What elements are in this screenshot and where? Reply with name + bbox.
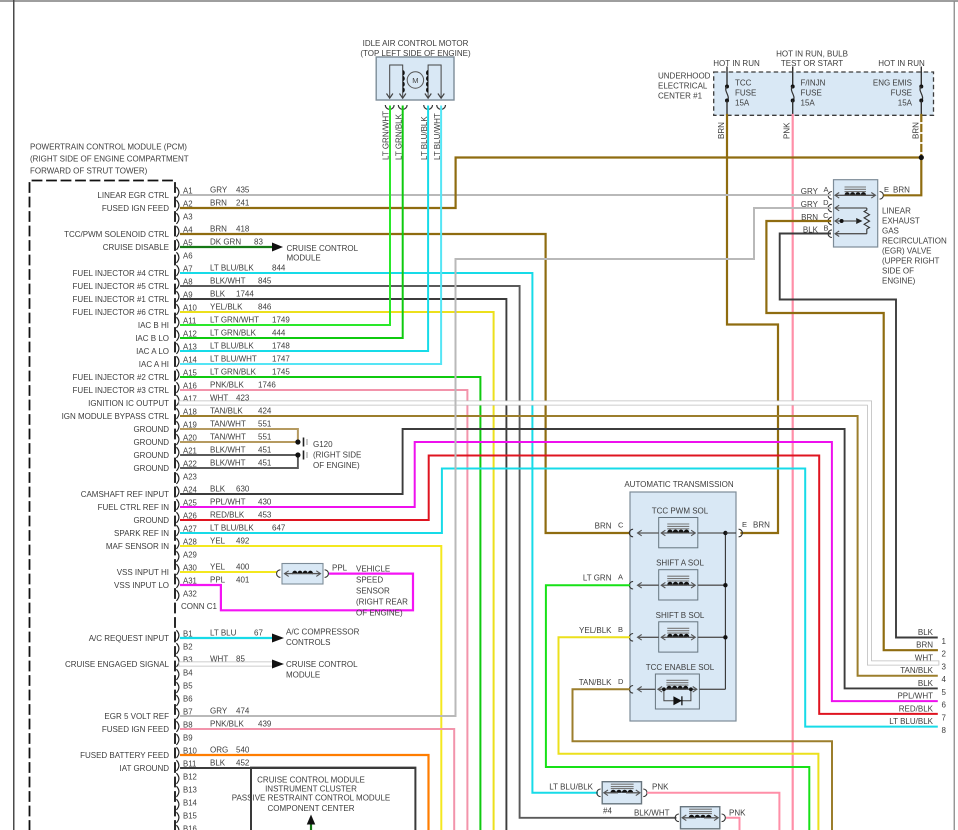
svg-text:PPL: PPL (332, 564, 348, 573)
PCM pin B6 (176, 695, 179, 706)
svg-text:FUSE: FUSE (801, 89, 822, 98)
svg-text:A/C REQUEST INPUT: A/C REQUEST INPUT (89, 634, 169, 643)
svg-text:IDLE AIR CONTROL MOTOR: IDLE AIR CONTROL MOTOR (363, 39, 469, 48)
PCM pin A1 (176, 187, 179, 198)
svg-text:SHIFT B SOL: SHIFT B SOL (656, 611, 705, 620)
svg-text:15A: 15A (801, 99, 816, 108)
svg-text:FUSED IGN FEED: FUSED IGN FEED (102, 204, 169, 213)
PCM pin B10 (176, 747, 179, 758)
svg-text:MAF SENSOR IN: MAF SENSOR IN (106, 542, 169, 551)
svg-text:SHIFT A SOL: SHIFT A SOL (656, 559, 704, 568)
svg-text:UNDERHOOD: UNDERHOOD (658, 72, 711, 81)
PCM dashed box border (30, 181, 176, 830)
vehicle speed sensor box (282, 564, 323, 585)
svg-text:G120: G120 (313, 440, 333, 449)
svg-text:BRN: BRN (893, 186, 910, 195)
wire A9 BLK 1744 off page bottom (181, 299, 506, 830)
PCM pin A2 (176, 200, 179, 211)
svg-text:OF ENGINE): OF ENGINE) (313, 461, 360, 470)
svg-text:IGN MODULE BYPASS CTRL: IGN MODULE BYPASS CTRL (62, 412, 170, 421)
wire A18 TAN/BLK 424 to right connector 4 (181, 416, 937, 676)
svg-text:CRUISE ENGAGED SIGNAL: CRUISE ENGAGED SIGNAL (65, 660, 170, 669)
svg-text:LT GRN/WHT: LT GRN/WHT (210, 316, 259, 325)
wire BRN from TCC fuse to transmission pin E (727, 115, 778, 533)
wire A10 YEL/BLK 846 off page bottom (181, 312, 494, 830)
svg-text:INSTRUMENT CLUSTER: INSTRUMENT CLUSTER (265, 785, 357, 794)
wire A28 YEL 492 off page bottom (181, 546, 441, 830)
PCM pin A6 (176, 252, 179, 263)
svg-text:492: 492 (236, 537, 250, 546)
transmission internal bus (724, 533, 726, 689)
svg-text:A/C COMPRESSOR: A/C COMPRESSOR (286, 628, 360, 637)
svg-text:A3: A3 (183, 213, 193, 222)
PCM pin B1 (176, 630, 179, 641)
svg-text:RECIRCULATION: RECIRCULATION (882, 237, 947, 246)
wire A25 PPL/WHT 430 to right connector 6 (181, 442, 937, 701)
svg-text:LT GRN/BLK: LT GRN/BLK (210, 329, 257, 338)
EGR wiper arrow and junction (840, 219, 844, 223)
svg-text:BLK/WHT: BLK/WHT (210, 277, 246, 286)
svg-text:LT BLU/BLK: LT BLU/BLK (549, 783, 593, 792)
wire B3 WHT 85 to cruise control module (181, 662, 272, 667)
svg-text:647: 647 (272, 524, 286, 533)
svg-text:WHT: WHT (915, 654, 933, 663)
svg-text:LT BLU/BLK: LT BLU/BLK (210, 524, 254, 533)
svg-text:PNK: PNK (652, 783, 669, 792)
svg-text:YEL: YEL (210, 563, 226, 572)
svg-text:BLK/WHT: BLK/WHT (210, 446, 246, 455)
svg-text:#4: #4 (603, 807, 612, 816)
PCM pin A4 (176, 226, 179, 237)
PCM pin B3 (176, 656, 179, 667)
wire A5 DK GRN 83 to cruise control module (181, 246, 272, 248)
svg-text:BLK/WHT: BLK/WHT (634, 809, 670, 818)
svg-text:B13: B13 (183, 786, 197, 795)
svg-text:CAMSHAFT REF INPUT: CAMSHAFT REF INPUT (81, 490, 169, 499)
PCM pin A5 (176, 239, 179, 250)
svg-text:C: C (618, 521, 624, 530)
component center box (251, 768, 415, 830)
PCM pin A20 (176, 434, 179, 445)
PCM pin A30 (176, 564, 179, 575)
PCM pin B5 (176, 682, 179, 693)
wire A1 GRY 435 to EGR pin A (181, 194, 830, 196)
svg-text:HOT IN RUN: HOT IN RUN (713, 59, 760, 68)
svg-text:(RIGHT SIDE OF ENGINE COMPARTM: (RIGHT SIDE OF ENGINE COMPARTMENT (30, 155, 189, 164)
svg-text:LT GRN/BLK: LT GRN/BLK (210, 368, 257, 377)
svg-text:SPARK REF IN: SPARK REF IN (114, 529, 169, 538)
svg-text:GRY: GRY (210, 707, 228, 716)
svg-text:ENG EMIS: ENG EMIS (873, 79, 912, 88)
svg-text:FUSE: FUSE (735, 89, 756, 98)
svg-text:IGNITION IC OUTPUT: IGNITION IC OUTPUT (88, 399, 169, 408)
svg-text:PNK/BLK: PNK/BLK (210, 720, 244, 729)
svg-text:5: 5 (942, 688, 947, 697)
wire A26 RED/BLK 453 to right connector 7 (181, 456, 937, 714)
PCM pin B13 (176, 786, 179, 797)
wire TAN/BLK to transmission pin D (573, 689, 833, 830)
wire A16 PNK/BLK 1746 off page bottom (181, 390, 467, 830)
svg-text:LT BLU/BLK: LT BLU/BLK (889, 717, 933, 726)
wire A31 PPL 401 loop to VSS (181, 574, 413, 611)
svg-text:B16: B16 (183, 825, 197, 830)
svg-text:POWERTRAIN CONTROL MODULE (PCM: POWERTRAIN CONTROL MODULE (PCM) (30, 143, 187, 152)
svg-text:453: 453 (258, 511, 272, 520)
idle air control motor box (376, 57, 454, 100)
EGR pin D connector (828, 204, 832, 212)
svg-text:IAC A LO: IAC A LO (136, 347, 169, 356)
wire A24 BLK 630 to right connector 5 (181, 429, 937, 688)
svg-text:(UPPER RIGHT: (UPPER RIGHT (882, 257, 939, 266)
svg-text:LT BLU/WHT: LT BLU/WHT (210, 355, 257, 364)
wire LT GRN to transmission pin A (546, 585, 809, 830)
svg-text:GAS: GAS (882, 227, 899, 236)
svg-text:LT GRN: LT GRN (583, 574, 612, 583)
wire PNK from F/INJN fuse down off page (792, 115, 794, 830)
PCM pin A16 (176, 382, 179, 393)
svg-text:TAN/BLK: TAN/BLK (579, 678, 612, 687)
page border frame (0, 0, 958, 2)
svg-text:PNK: PNK (783, 122, 792, 139)
svg-text:(RIGHT REAR: (RIGHT REAR (356, 598, 408, 607)
svg-text:CRUISE CONTROL: CRUISE CONTROL (287, 244, 359, 253)
fuse F/INJN (792, 67, 794, 87)
svg-text:FORWARD OF STRUT TOWER): FORWARD OF STRUT TOWER) (30, 167, 148, 176)
EGR pin E connector cup (880, 192, 884, 200)
svg-text:TAN/WHT: TAN/WHT (210, 433, 246, 442)
PCM pin B11 (176, 760, 179, 771)
PCM pin A7 (176, 265, 179, 276)
PCM pin A21 (176, 447, 179, 458)
svg-text:BLK/WHT: BLK/WHT (210, 459, 246, 468)
svg-text:B2: B2 (183, 643, 193, 652)
svg-text:3: 3 (942, 663, 947, 672)
wire A21 BLK/WHT 451 to G120 (181, 454, 298, 456)
svg-text:YEL: YEL (210, 537, 226, 546)
PCM pin B16 (176, 825, 179, 830)
PCM pin A8 (176, 278, 179, 289)
PCM pin A29 (176, 551, 179, 562)
svg-text:BLK: BLK (210, 290, 226, 299)
IAC connector cups (385, 105, 394, 109)
PCM pin A10 (176, 304, 179, 315)
svg-text:TCC PWM SOL: TCC PWM SOL (652, 507, 709, 516)
wire A12 LT GRN/BLK 444 to IAC (181, 107, 403, 339)
VSS connector cups (277, 570, 281, 578)
svg-text:SENSOR: SENSOR (356, 587, 390, 596)
wire BRN dashed from ENG EMIS fuse to junction (920, 115, 922, 156)
svg-text:E: E (884, 185, 889, 194)
svg-text:ENGINE): ENGINE) (882, 277, 916, 286)
svg-text:1745: 1745 (272, 368, 290, 377)
svg-text:CRUISE CONTROL: CRUISE CONTROL (286, 660, 358, 669)
svg-text:GROUND: GROUND (133, 464, 169, 473)
PCM pin A31 (176, 577, 179, 588)
svg-text:TAN/WHT: TAN/WHT (210, 420, 246, 429)
svg-text:BRN: BRN (753, 521, 770, 530)
svg-text:7: 7 (942, 713, 947, 722)
PCM pin B4 (176, 669, 179, 680)
svg-text:(RIGHT SIDE: (RIGHT SIDE (313, 451, 361, 460)
PCM pin B9 (176, 734, 179, 745)
svg-text:451: 451 (258, 446, 272, 455)
svg-text:B4: B4 (183, 669, 193, 678)
fuse TCC (726, 67, 728, 87)
svg-text:GROUND: GROUND (133, 425, 169, 434)
svg-text:SPEED: SPEED (356, 576, 383, 585)
svg-text:AUTOMATIC TRANSMISSION: AUTOMATIC TRANSMISSION (624, 480, 734, 489)
wire B11 BLK 452 off page bottom (181, 767, 415, 769)
wire A4 BRN 418 to transmission pin C (181, 234, 629, 533)
PCM pin B8 (176, 721, 179, 732)
svg-text:FUEL INJECTOR #2 CTRL: FUEL INJECTOR #2 CTRL (73, 373, 170, 382)
svg-text:CRUISE CONTROL MODULE: CRUISE CONTROL MODULE (257, 776, 365, 785)
svg-text:1744: 1744 (236, 290, 254, 299)
svg-text:MODULE: MODULE (287, 254, 321, 263)
svg-text:1746: 1746 (258, 381, 276, 390)
EGR pin B connector (828, 230, 832, 238)
svg-text:LINEAR EGR CTRL: LINEAR EGR CTRL (97, 191, 169, 200)
svg-text:TCC ENABLE SOL: TCC ENABLE SOL (646, 663, 715, 672)
svg-text:B9: B9 (183, 734, 193, 743)
svg-text:FUEL INJECTOR #4 CTRL: FUEL INJECTOR #4 CTRL (73, 269, 170, 278)
svg-text:1747: 1747 (272, 355, 290, 364)
PCM pin A27 (176, 525, 179, 536)
svg-text:SIDE OF: SIDE OF (882, 267, 914, 276)
svg-text:BRN: BRN (210, 225, 227, 234)
PCM pin A11 (176, 317, 179, 328)
PCM pin A17 (176, 395, 179, 406)
svg-text:452: 452 (236, 759, 250, 768)
svg-text:451: 451 (258, 459, 272, 468)
svg-text:LINEAR: LINEAR (882, 207, 911, 216)
underhood electrical center #1 fuse box (714, 72, 934, 115)
svg-text:B6: B6 (183, 695, 193, 704)
PCM pin A24 (176, 486, 179, 497)
svg-text:4: 4 (942, 675, 947, 684)
svg-text:PPL/WHT: PPL/WHT (210, 498, 246, 507)
automatic transmission box (630, 492, 736, 721)
svg-text:EGR 5 VOLT REF: EGR 5 VOLT REF (104, 712, 169, 721)
solenoid bypass diode (664, 689, 691, 701)
svg-text:B: B (618, 625, 623, 634)
PCM pin B15 (176, 812, 179, 823)
svg-text:B15: B15 (183, 812, 198, 821)
IAC coil A winding (right) (428, 65, 441, 98)
PCM pin A22 (176, 460, 179, 471)
svg-text:BRN: BRN (595, 522, 612, 531)
wire PNK from injector #4 off page (648, 793, 779, 830)
EGR pin C connector (828, 217, 832, 225)
svg-text:400: 400 (236, 563, 250, 572)
svg-text:1748: 1748 (272, 342, 290, 351)
transmission pin E connector (725, 532, 736, 534)
PCM pin B2 (176, 643, 179, 654)
svg-text:F/INJN: F/INJN (801, 79, 826, 88)
svg-text:HOT IN RUN, BULB: HOT IN RUN, BULB (776, 50, 848, 59)
svg-text:241: 241 (236, 199, 250, 208)
svg-text:CRUISE DISABLE: CRUISE DISABLE (103, 243, 169, 252)
wire B1 LT BLU 67 to A/C compressor controls (181, 637, 272, 639)
svg-text:6: 6 (942, 701, 947, 710)
EGR solenoid coil (845, 186, 867, 188)
wire A8 BLK/WHT 845 to injector #5 (181, 286, 676, 818)
wire A7 LT BLU/BLK 844 to injector #4 (181, 273, 597, 793)
svg-text:D: D (823, 198, 829, 207)
PCM pin B7 (176, 708, 179, 719)
svg-text:MODULE: MODULE (286, 671, 320, 680)
wire DK GRN into component center (310, 824, 312, 830)
svg-text:VEHICLE: VEHICLE (356, 565, 390, 574)
wire EGR pin B BLK to right connector 1 (780, 234, 937, 638)
fuel injector #5 box (681, 807, 720, 829)
PCM pin A26 (176, 512, 179, 523)
svg-text:846: 846 (258, 303, 272, 312)
svg-text:BLK: BLK (918, 628, 934, 637)
svg-text:DK GRN: DK GRN (210, 238, 241, 247)
svg-text:LT BLU: LT BLU (210, 629, 237, 638)
EGR pin A connector cup (828, 192, 832, 200)
wire B7 GRY 474 to EGR pin D (181, 208, 830, 716)
svg-text:FUSED IGN FEED: FUSED IGN FEED (102, 725, 169, 734)
svg-text:474: 474 (236, 707, 250, 716)
svg-text:B14: B14 (183, 799, 198, 808)
svg-text:TCC: TCC (735, 79, 752, 88)
svg-text:BRN: BRN (916, 641, 933, 650)
svg-text:COMPONENT CENTER: COMPONENT CENTER (268, 804, 355, 813)
svg-text:ELECTRICAL: ELECTRICAL (658, 82, 708, 91)
svg-text:PNK/BLK: PNK/BLK (210, 381, 244, 390)
svg-text:PNK: PNK (729, 808, 746, 817)
wire A27 LT BLU/BLK 647 to right connector 8 (181, 469, 937, 727)
PCM pin A19 (176, 421, 179, 432)
svg-text:844: 844 (272, 264, 286, 273)
IAC coil B winding (left) (390, 65, 403, 98)
svg-text:IAT GROUND: IAT GROUND (120, 764, 170, 773)
PCM pin A32 (176, 590, 179, 601)
svg-text:BRN: BRN (911, 122, 920, 139)
svg-text:424: 424 (258, 407, 272, 416)
svg-text:A32: A32 (183, 590, 197, 599)
svg-text:FUEL CTRL REF IN: FUEL CTRL REF IN (98, 503, 170, 512)
svg-text:ORG: ORG (210, 746, 228, 755)
svg-text:845: 845 (258, 277, 272, 286)
svg-text:PPL: PPL (210, 576, 226, 585)
svg-text:B5: B5 (183, 682, 193, 691)
wire B8 PNK/BLK 439 off page bottom (181, 729, 454, 830)
svg-text:TCC/PWM SOLENOID CTRL: TCC/PWM SOLENOID CTRL (64, 230, 169, 239)
PCM pin A12 (176, 330, 179, 341)
PCM pin B12 (176, 773, 179, 784)
svg-text:BRN: BRN (210, 199, 227, 208)
svg-text:FUSED BATTERY FEED: FUSED BATTERY FEED (80, 751, 169, 760)
svg-text:YEL/BLK: YEL/BLK (210, 303, 243, 312)
svg-text:IAC B HI: IAC B HI (138, 321, 169, 330)
wire A17 WHT 423 to right connector 3 (181, 403, 937, 663)
svg-text:IAC B LO: IAC B LO (135, 334, 169, 343)
svg-text:BLK: BLK (210, 485, 226, 494)
svg-text:FUEL INJECTOR #6 CTRL: FUEL INJECTOR #6 CTRL (73, 308, 170, 317)
svg-text:GROUND: GROUND (133, 438, 169, 447)
svg-text:439: 439 (258, 720, 272, 729)
svg-text:A: A (618, 573, 623, 582)
PCM pin A28 (176, 538, 179, 549)
wire EGR pin C BRN to right connector 2 (766, 221, 936, 650)
svg-text:FUEL INJECTOR #5 CTRL: FUEL INJECTOR #5 CTRL (73, 282, 170, 291)
svg-text:TAN/BLK: TAN/BLK (210, 407, 243, 416)
wire A22 BLK/WHT 451 to G120 (181, 455, 298, 468)
svg-text:IAC A HI: IAC A HI (139, 360, 169, 369)
PCM pin A25 (176, 499, 179, 510)
svg-text:BLK: BLK (210, 759, 226, 768)
EGR pin A-E through line (835, 194, 855, 196)
fuel injector #4 box (602, 782, 641, 804)
svg-text:540: 540 (236, 746, 250, 755)
svg-text:LT BLU/BLK: LT BLU/BLK (210, 342, 254, 351)
svg-text:8: 8 (942, 726, 947, 735)
wire A30 YEL 400 to VSS (181, 571, 276, 573)
svg-text:CENTER #1: CENTER #1 (658, 92, 703, 101)
svg-text:OF ENGINE): OF ENGINE) (356, 609, 403, 618)
PCM pin A3 (176, 213, 179, 224)
svg-text:630: 630 (236, 485, 250, 494)
svg-text:RED/BLK: RED/BLK (210, 511, 245, 520)
svg-text:83: 83 (254, 238, 263, 247)
wire PNK from injector #5 off page (727, 818, 740, 830)
svg-text:FUSE: FUSE (891, 89, 912, 98)
svg-text:YEL/BLK: YEL/BLK (579, 626, 612, 635)
svg-text:VSS INPUT LO: VSS INPUT LO (114, 581, 169, 590)
wire A20 TAN/WHT 551 to G120 (181, 441, 298, 443)
wire A2 BRN 241 to BRN junction / EGR pin E (181, 158, 921, 209)
PCM pin A14 (176, 356, 179, 367)
svg-text:A23: A23 (183, 473, 197, 482)
svg-text:GROUND: GROUND (133, 516, 169, 525)
wire A14 LT BLU/WHT 1747 to IAC (181, 107, 441, 365)
svg-text:BLK: BLK (918, 679, 934, 688)
svg-text:2: 2 (942, 650, 947, 659)
svg-text:444: 444 (272, 329, 286, 338)
G120 ground junction dots and terminals (295, 439, 300, 444)
svg-text:LT BLU/BLK: LT BLU/BLK (210, 264, 254, 273)
svg-text:TEST OR START: TEST OR START (781, 59, 843, 68)
svg-text:A: A (823, 185, 828, 194)
PCM pin A18 (176, 408, 179, 419)
wire YEL/BLK to transmission pin B (559, 637, 819, 830)
svg-text:RED/BLK: RED/BLK (899, 704, 934, 713)
svg-text:CONN C1: CONN C1 (181, 602, 218, 611)
svg-text:PASSIVE RESTRAINT CONTROL MODU: PASSIVE RESTRAINT CONTROL MODULE (232, 794, 391, 803)
svg-text:430: 430 (258, 498, 272, 507)
svg-text:D: D (618, 677, 624, 686)
svg-text:GRY: GRY (210, 186, 228, 195)
PCM pin A23 (176, 473, 179, 484)
svg-text:E: E (742, 520, 747, 529)
svg-text:15A: 15A (735, 99, 750, 108)
wire B10 ORG 540 off page bottom (181, 755, 429, 830)
wire A11 LT GRN/WHT 1749 to IAC (181, 107, 390, 326)
svg-text:M: M (412, 76, 418, 85)
svg-text:15A: 15A (898, 99, 913, 108)
svg-text:551: 551 (258, 420, 272, 429)
svg-text:FUEL INJECTOR #1 CTRL: FUEL INJECTOR #1 CTRL (73, 295, 170, 304)
svg-text:435: 435 (236, 186, 250, 195)
linear EGR valve box (834, 180, 878, 247)
PCM pin A15 (176, 369, 179, 380)
svg-text:1: 1 (942, 637, 947, 646)
svg-text:CONTROLS: CONTROLS (286, 638, 330, 647)
svg-text:TAN/BLK: TAN/BLK (900, 666, 933, 675)
